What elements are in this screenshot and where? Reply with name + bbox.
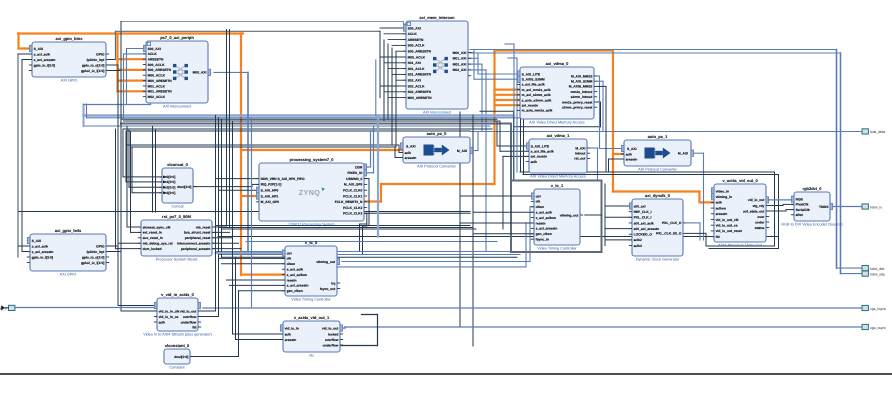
svg-text:S00_ACLK: S00_ACLK bbox=[148, 63, 165, 67]
wire blue B M00 drop bbox=[247, 72, 249, 254]
svg-text:overflow: overflow bbox=[183, 315, 197, 319]
svg-text:PXL_CLK_I: PXL_CLK_I bbox=[634, 216, 652, 220]
svg-text:ACLK: ACLK bbox=[408, 32, 418, 36]
wire blue F out drop bbox=[477, 132, 479, 151]
wire dark riser x221 bbox=[221, 119, 223, 257]
svg-text:vid_io_out: vid_io_out bbox=[748, 198, 765, 202]
wire blue P drop1 bbox=[699, 223, 701, 240]
wire blue drop x840 bbox=[840, 53, 842, 274]
svg-text:M01_AXI: M01_AXI bbox=[453, 57, 467, 61]
svg-text:AXI Interconnect: AXI Interconnect bbox=[163, 105, 192, 109]
svg-text:introut: introut bbox=[575, 152, 586, 156]
wire dark E feed1 bbox=[496, 121, 498, 146]
wire zynq DDR out bbox=[364, 166, 371, 168]
wire dark const riser bbox=[238, 291, 240, 357]
wire dark P out2 bbox=[687, 232, 707, 234]
wire dark O feed1 bbox=[460, 195, 534, 197]
svg-text:DDR: DDR bbox=[355, 165, 363, 169]
svg-text:S01_AXI: S01_AXI bbox=[408, 61, 421, 65]
wire dark Cfeed v2 bbox=[383, 40, 385, 121]
svg-text:mm2s_introut: mm2s_introut bbox=[571, 90, 594, 94]
svg-text:s_axi_aclk: s_axi_aclk bbox=[287, 268, 304, 272]
svg-text:interconnect_aresetn: interconnect_aresetn bbox=[177, 242, 210, 246]
svg-text:M00_ARESETN: M00_ARESETN bbox=[408, 96, 433, 100]
wire dark vtc clk bbox=[219, 257, 286, 259]
svg-text:M_AXI_GP0: M_AXI_GP0 bbox=[344, 183, 363, 187]
wire blue loop B1 drop bbox=[126, 49, 128, 105]
svg-text:S_AXI: S_AXI bbox=[32, 239, 42, 243]
wire dark stub K2 clk bbox=[18, 245, 30, 247]
svg-text:vid_io_out_clk: vid_io_out_clk bbox=[716, 218, 739, 222]
wire dark L2 loop v bbox=[377, 315, 379, 346]
svg-text:AXI4-Stream to Video Out: AXI4-Stream to Video Out bbox=[718, 244, 763, 248]
wire zynq DDR riser bbox=[370, 132, 372, 168]
svg-text:processing_system7_0: processing_system7_0 bbox=[289, 157, 334, 162]
svg-text:m_axi_mm2s_aclk: m_axi_mm2s_aclk bbox=[522, 88, 551, 92]
svg-text:S00_ARESETN: S00_ARESETN bbox=[408, 50, 432, 54]
wire dark riser x232 bbox=[232, 121, 234, 229]
block rst_ps7_0_50M reset bbox=[138, 214, 215, 261]
svg-text:Constant: Constant bbox=[169, 366, 185, 370]
block v_vid_in_axi4s_0 bbox=[143, 292, 212, 336]
wire orange drop x381 bbox=[380, 184, 382, 202]
svg-text:gen_clken: gen_clken bbox=[536, 232, 552, 236]
wire dark D pin stub y102 bbox=[597, 101, 601, 103]
wire dark concat riser bbox=[251, 184, 253, 186]
wire orange branch into interconnect B bbox=[118, 58, 147, 60]
wire dark drop x460 bbox=[459, 112, 461, 327]
svg-text:s_axi_aclk: s_axi_aclk bbox=[34, 52, 51, 56]
svg-text:m_axi_s2mm_aclk: m_axi_s2mm_aclk bbox=[522, 93, 551, 97]
wire dark riser x152 bbox=[152, 126, 154, 212]
wire dark riser x215 bbox=[215, 116, 217, 252]
svg-text:over: over bbox=[757, 215, 765, 219]
svg-text:S00_AXI: S00_AXI bbox=[148, 47, 161, 51]
svg-text:LOCKED_O: LOCKED_O bbox=[634, 233, 653, 237]
svg-text:v_tc_1: v_tc_1 bbox=[551, 183, 564, 188]
wire dark into M vid_io bbox=[121, 310, 157, 312]
svg-text:PixelClk: PixelClk bbox=[796, 203, 809, 207]
svg-text:s_axi_aclken: s_axi_aclken bbox=[536, 216, 556, 220]
wire orange branch into axi_vdma_0 bbox=[495, 99, 521, 101]
wire blue vtc out1 bbox=[342, 261, 530, 263]
svg-text:RGB: RGB bbox=[796, 198, 804, 202]
wire dark O feed3 bbox=[460, 222, 534, 224]
svg-text:gpio_io_i[3:0]: gpio_io_i[3:0] bbox=[32, 255, 53, 259]
svg-text:auto_pc_1: auto_pc_1 bbox=[648, 134, 669, 139]
wire dark into F aclk bbox=[398, 145, 400, 153]
wire blue loop B1 bbox=[127, 48, 147, 50]
wire dark D loop top bbox=[480, 110, 514, 112]
wire dark D bottom drop1 bbox=[520, 119, 522, 172]
svg-text:axi_resetn: axi_resetn bbox=[531, 155, 547, 159]
wire dark E feed2 bbox=[499, 121, 501, 151]
svg-text:S02_AXI: S02_AXI bbox=[408, 79, 421, 83]
wire dark M riser2 bbox=[218, 255, 220, 317]
wire dark riser x229 bbox=[229, 30, 231, 228]
svg-text:ext_reset_in: ext_reset_in bbox=[143, 231, 162, 235]
wire dark O feed2 bbox=[473, 211, 534, 213]
svg-text:Video In to AXI4-Stream (plus: Video In to AXI4-Stream (plus generator) bbox=[143, 333, 212, 337]
port vid in left bbox=[0, 305, 15, 310]
wire blue vtc drop1 bbox=[529, 207, 531, 262]
wire grey rect left bbox=[510, 124, 512, 253]
svg-text:aRst: aRst bbox=[796, 213, 804, 217]
svg-text:status: status bbox=[755, 226, 765, 230]
wire orange y191 bbox=[613, 190, 700, 192]
wire dark G aresetn v bbox=[608, 159, 610, 172]
svg-text:axi_gpio_btns: axi_gpio_btns bbox=[56, 36, 84, 41]
svg-text:slowest_sync_clk: slowest_sync_clk bbox=[143, 225, 171, 229]
wire dark zynq left1 bbox=[216, 178, 260, 180]
svg-text:hdmi_ddc: hdmi_ddc bbox=[870, 267, 885, 271]
wire zynq right out3 bbox=[364, 178, 369, 180]
wire dark E feed3b bbox=[503, 155, 529, 157]
wire dark Cfeed stub bbox=[384, 62, 406, 64]
svg-text:ARESETN: ARESETN bbox=[408, 38, 424, 42]
wire blue left port wire bbox=[15, 307, 155, 309]
wire orange branch into interconnect B bbox=[118, 69, 147, 71]
wire blue bus y117 bbox=[87, 117, 521, 119]
svg-text:hdmi_tx: hdmi_tx bbox=[870, 205, 882, 209]
wire grey top drop bbox=[403, 22, 405, 25]
svg-text:ctrl: ctrl bbox=[536, 194, 541, 198]
wire lightblue bus y115 bbox=[84, 114, 514, 116]
svg-text:mb_reset: mb_reset bbox=[196, 225, 212, 229]
wire dark bus y119 bbox=[121, 118, 497, 120]
svg-text:s_axis_s2mm_aclk: s_axis_s2mm_aclk bbox=[522, 98, 552, 102]
wire blue L2 out bbox=[343, 327, 345, 329]
svg-text:s_axi_aresetn: s_axi_aresetn bbox=[536, 227, 558, 231]
wire dark E feed2b bbox=[500, 150, 529, 152]
svg-text:M02_AXI: M02_AXI bbox=[453, 62, 467, 66]
svg-text:Processor System Reset: Processor System Reset bbox=[156, 258, 199, 262]
svg-text:axi_dynclk_0: axi_dynclk_0 bbox=[645, 193, 671, 198]
wire dark D loop right bbox=[600, 102, 602, 127]
block rgb2dvi_0 bbox=[781, 186, 843, 226]
wire grey top into C bbox=[404, 23, 407, 25]
wire zynq fclk out bbox=[364, 212, 367, 214]
svg-text:vid_io_out_ce: vid_io_out_ce bbox=[716, 224, 738, 228]
wire dark concat feed2 bbox=[126, 181, 162, 183]
wire dark vtc clken bbox=[222, 263, 286, 265]
wire blue D drop1 bbox=[599, 76, 601, 149]
wire blue drop x517 bbox=[516, 58, 518, 172]
wire dark D loop bottom bbox=[514, 126, 601, 128]
wire blue drop x251 bbox=[251, 118, 253, 308]
wire dark rst out2 bbox=[212, 231, 230, 233]
svg-text:peripheral_aresetn: peripheral_aresetn bbox=[181, 247, 211, 251]
wire dark const out bbox=[190, 356, 239, 358]
svg-text:gpio_io_o[3:0]: gpio_io_o[3:0] bbox=[82, 63, 105, 67]
wire dark bus y229 bbox=[222, 228, 477, 230]
port vid io 2 bbox=[862, 324, 886, 329]
wire dark M out2 bbox=[198, 316, 219, 318]
svg-text:M00_AXI: M00_AXI bbox=[193, 71, 207, 75]
wire blue C M01 stub bbox=[468, 57, 478, 59]
wire dark Q into R2 bbox=[783, 203, 794, 205]
wire blue into port4 bbox=[841, 273, 863, 275]
svg-text:ZYNQ: ZYNQ bbox=[299, 188, 321, 197]
svg-text:s_axi_aclk: s_axi_aclk bbox=[536, 211, 553, 215]
port ddc scl bbox=[862, 266, 885, 271]
wire dark rst feed h2 bbox=[116, 248, 142, 250]
wire dark concat riser f1 bbox=[122, 129, 124, 177]
svg-text:s2mm_introut: s2mm_introut bbox=[571, 95, 594, 99]
wire dark Cfeed v1 bbox=[379, 31, 381, 97]
wire dark Q into R3 bbox=[786, 209, 794, 211]
left port input arrow bbox=[1, 305, 5, 310]
wire dark drop x473 bbox=[472, 115, 474, 346]
svg-text:AXI GPIO: AXI GPIO bbox=[61, 79, 78, 83]
svg-text:xlconcat_0: xlconcat_0 bbox=[167, 162, 188, 167]
wire dark rst out1 bbox=[212, 226, 227, 228]
wire blue D out1 bbox=[597, 75, 600, 77]
svg-text:vid_io_out: vid_io_out bbox=[322, 326, 339, 330]
svg-text:S02_ACLK: S02_ACLK bbox=[408, 84, 425, 88]
block v_axi4s_vid_out_0 bbox=[711, 178, 769, 247]
svg-text:locked: locked bbox=[328, 332, 338, 336]
wire dark bus y131 left bbox=[126, 130, 470, 132]
wire dark rst feed2 v bbox=[130, 131, 132, 232]
svg-text:PXL_CLK_O: PXL_CLK_O bbox=[662, 221, 682, 225]
svg-text:vid_io_in_ce: vid_io_in_ce bbox=[159, 315, 179, 319]
block axi_gpio_leds bbox=[27, 228, 109, 276]
svg-text:Concat: Concat bbox=[171, 205, 184, 209]
wire blue y49 long bbox=[470, 49, 837, 51]
wire blue vtc into O bbox=[530, 206, 534, 208]
svg-text:aclk: aclk bbox=[626, 152, 633, 156]
svg-text:xlconstant_0: xlconstant_0 bbox=[165, 343, 190, 348]
svg-text:vtiming_out: vtiming_out bbox=[560, 213, 580, 217]
wire orange into v_axi4s_vid_out bbox=[700, 201, 715, 203]
svg-text:s_axi_aresetn: s_axi_aresetn bbox=[287, 284, 309, 288]
wire lblue riser x378 bbox=[377, 116, 379, 237]
block axi_protocol_converter_1 bbox=[621, 134, 694, 171]
wire dark bus y121 bbox=[124, 120, 500, 122]
wire dark riser x218 bbox=[218, 118, 220, 255]
block xlconcat_0 bbox=[159, 162, 196, 208]
svg-text:overflow: overflow bbox=[325, 338, 339, 342]
svg-text:M01_ACLK: M01_ACLK bbox=[148, 84, 166, 88]
wire dark E feed3 bbox=[502, 156, 504, 229]
wire orange top y50 bbox=[495, 49, 614, 51]
svg-text:aclk: aclk bbox=[716, 201, 723, 205]
svg-text:aux_reset_in: aux_reset_in bbox=[143, 236, 163, 240]
svg-text:underflow: underflow bbox=[323, 343, 339, 347]
wire dark into F aclk2 bbox=[399, 152, 403, 154]
wire dark concat riser f4 bbox=[131, 147, 133, 193]
wire dark riser x115 bbox=[115, 31, 117, 59]
svg-text:aclk: aclk bbox=[531, 160, 538, 164]
wire dark Cfeed stub bbox=[380, 56, 406, 58]
wire zynq hook v1 bbox=[359, 224, 361, 252]
wire orange branch into interconnect B bbox=[118, 90, 147, 92]
wire blue C M02 stub bbox=[468, 63, 482, 65]
wire blue vtc out2 bbox=[337, 266, 526, 268]
svg-text:GPIO: GPIO bbox=[96, 52, 105, 56]
wire dark left x22 bbox=[21, 60, 23, 252]
svg-text:vtiming_in: vtiming_in bbox=[716, 195, 733, 199]
svg-text:FCLK_CLK0: FCLK_CLK0 bbox=[343, 189, 362, 193]
svg-text:M_AXI_GP0: M_AXI_GP0 bbox=[261, 200, 280, 204]
wire dark bus y147 bbox=[131, 146, 395, 148]
svg-text:fsync_in: fsync_in bbox=[536, 238, 549, 242]
wire dark bus y236 long bbox=[218, 236, 779, 238]
wire dark Cfeed stub bbox=[380, 27, 406, 29]
svg-text:clk: clk bbox=[536, 200, 541, 204]
svg-text:s_axi_lite_aclk: s_axi_lite_aclk bbox=[522, 83, 545, 87]
svg-text:aresetn: aresetn bbox=[716, 212, 728, 216]
wire dark Q out3 bbox=[766, 210, 786, 212]
svg-text:v_axi4s_vid_out_0: v_axi4s_vid_out_0 bbox=[722, 178, 758, 183]
wire dark concat feed3 bbox=[129, 186, 162, 188]
svg-text:USBIND_0: USBIND_0 bbox=[346, 177, 362, 181]
svg-text:s_axi_aresetn: s_axi_aresetn bbox=[32, 250, 54, 254]
svg-text:IRQ_F2P[1:0]: IRQ_F2P[1:0] bbox=[261, 183, 282, 187]
port led right bbox=[862, 129, 886, 134]
wire blue into port3 bbox=[837, 267, 863, 269]
svg-text:s_axi_aclk: s_axi_aclk bbox=[32, 244, 49, 248]
wire dark long y211 bbox=[19, 211, 470, 213]
svg-text:v_tc_0: v_tc_0 bbox=[305, 240, 318, 245]
wire blue x517 top bbox=[508, 57, 517, 59]
wire dark K2 out2 bbox=[106, 251, 121, 253]
svg-text:rst_out: rst_out bbox=[574, 157, 586, 161]
svg-text:axi_vdma_1: axi_vdma_1 bbox=[547, 133, 570, 138]
wire dark L2 loop b bbox=[340, 345, 378, 347]
svg-text:vtc: vtc bbox=[309, 354, 314, 358]
wire blue riser x378b bbox=[375, 60, 377, 116]
port hdmi tx bbox=[862, 204, 882, 209]
wire dark Cfeed stub bbox=[392, 73, 406, 75]
block v_vid_in_axi4s_1 bbox=[280, 315, 343, 357]
svg-text:m_axis_mm2s_aclk: m_axis_mm2s_aclk bbox=[522, 109, 553, 113]
wire dark O out bbox=[585, 214, 602, 216]
svg-text:S01_ACLK: S01_ACLK bbox=[408, 67, 425, 71]
svg-text:M00_ARESETN: M00_ARESETN bbox=[148, 79, 173, 83]
svg-text:gpio_io_i[3:0]: gpio_io_i[3:0] bbox=[34, 63, 55, 67]
svg-text:FCLK_CLK2: FCLK_CLK2 bbox=[343, 206, 362, 210]
wire dark bus y227 bbox=[219, 227, 474, 229]
svg-text:v_vid_in_axi4s_0: v_vid_in_axi4s_0 bbox=[161, 292, 194, 297]
wire blue long y308 bbox=[203, 307, 862, 309]
wire dark Cfeed v3 bbox=[387, 44, 389, 119]
svg-text:gpio2_io_i[3:0]: gpio2_io_i[3:0] bbox=[81, 69, 104, 73]
wire blue long y131 to port1 bbox=[470, 131, 862, 133]
wire blue under B h bbox=[84, 104, 151, 106]
wire dark concat riser f2 bbox=[125, 131, 127, 182]
wire dark stub K2 rst bbox=[22, 251, 30, 253]
svg-text:AXI Protocol Converter: AXI Protocol Converter bbox=[417, 165, 457, 169]
svg-text:gen_clken: gen_clken bbox=[287, 289, 303, 293]
wire blue loop B2 bbox=[124, 53, 147, 55]
svg-text:FCLK_CLK3: FCLK_CLK3 bbox=[343, 212, 362, 216]
wire blue riser x478 bbox=[477, 53, 479, 58]
wire blue into D pin1 bbox=[478, 73, 520, 75]
svg-text:M_AXIS_MM2S: M_AXIS_MM2S bbox=[569, 85, 593, 89]
wire dark rst out4 bbox=[212, 242, 239, 244]
svg-text:s00_axi_aclk: s00_axi_aclk bbox=[634, 221, 654, 225]
svg-text:rgb2dvi_0: rgb2dvi_0 bbox=[803, 186, 823, 191]
wire dark rst feed v2 bbox=[115, 129, 117, 249]
wire blue long y327 bbox=[345, 326, 862, 328]
wire blue bus y241 bbox=[246, 241, 497, 243]
wire dark concat feed4 bbox=[132, 192, 162, 194]
wire dark A out1 bbox=[106, 59, 116, 61]
svg-text:AXI Interconnect: AXI Interconnect bbox=[423, 111, 452, 115]
svg-text:AXI Protocol Converter: AXI Protocol Converter bbox=[638, 168, 678, 172]
wire dark Cfeed stub bbox=[380, 85, 406, 87]
block axi_vdma_0 bbox=[517, 61, 597, 124]
wire zynq hook v2 bbox=[362, 226, 364, 255]
svg-text:s_axi_aclken: s_axi_aclken bbox=[287, 273, 307, 277]
svg-text:M_AXI_MM2S: M_AXI_MM2S bbox=[571, 74, 593, 78]
svg-text:axi_gpio_leds: axi_gpio_leds bbox=[55, 228, 82, 233]
svg-text:S00_ACLK: S00_ACLK bbox=[408, 44, 425, 48]
svg-text:vid_io_in_clk: vid_io_in_clk bbox=[159, 309, 180, 313]
svg-text:REF_CLK_I: REF_CLK_I bbox=[634, 210, 652, 214]
svg-text:S_AXI_HP1: S_AXI_HP1 bbox=[261, 194, 279, 198]
svg-text:mb_debug_sys_rst: mb_debug_sys_rst bbox=[143, 242, 174, 246]
wire blue F out bbox=[473, 150, 478, 152]
svg-text:M_AXI: M_AXI bbox=[457, 149, 467, 153]
svg-text:vid_io_out_reset: vid_io_out_reset bbox=[716, 229, 743, 233]
svg-text:DDR_VRN S_AXI_HP0_FIFO: DDR_VRN S_AXI_HP0_FIFO bbox=[261, 177, 305, 181]
svg-text:In3[0:0]: In3[0:0] bbox=[164, 191, 176, 195]
wire blue riser x474 bbox=[473, 50, 475, 53]
wire dark drop x118 bbox=[117, 65, 119, 306]
wire dark rst feed h1 bbox=[118, 242, 141, 244]
wire dark riser x226 bbox=[226, 30, 228, 226]
svg-text:S00_ARESETN: S00_ARESETN bbox=[148, 68, 172, 72]
wire blue E out drop bbox=[597, 148, 599, 181]
wire orange into ZYNQ right bbox=[364, 200, 381, 202]
svg-text:dout[0:0]: dout[0:0] bbox=[174, 355, 188, 359]
wire orange branch into interconnect B bbox=[118, 79, 147, 81]
svg-text:AXI Video Direct Memory Access: AXI Video Direct Memory Access bbox=[529, 121, 585, 125]
wire dark L2 loop right bbox=[362, 314, 378, 316]
wire dark rst feed2 h bbox=[131, 231, 142, 233]
wire orange into auto_pc_0 bbox=[241, 149, 403, 151]
wire blue P out1 bbox=[687, 222, 701, 224]
bottom border line bbox=[0, 373, 892, 375]
svg-text:s00_axi_aresetn: s00_axi_aresetn bbox=[634, 227, 659, 231]
block axi_dynclk_0 bbox=[629, 193, 686, 261]
svg-text:ZYNQ7 Processing System: ZYNQ7 Processing System bbox=[288, 223, 334, 227]
wire blue D into G bbox=[600, 148, 622, 150]
svg-text:aclk: aclk bbox=[405, 151, 412, 155]
wire dark L2 drop bbox=[232, 229, 234, 334]
svg-text:FCLK_CLK1: FCLK_CLK1 bbox=[343, 194, 362, 198]
wire dark bus y145 bbox=[128, 144, 399, 146]
wire dark Cfeed v5 bbox=[395, 52, 397, 147]
svg-text:aresetn: aresetn bbox=[285, 338, 297, 342]
svg-text:In1[0:0]: In1[0:0] bbox=[164, 180, 176, 184]
svg-text:mm2s_prmry_reset: mm2s_prmry_reset bbox=[562, 100, 593, 104]
svg-text:fid: fid bbox=[716, 235, 720, 239]
svg-text:S_AXIS_S2MM: S_AXIS_S2MM bbox=[522, 78, 545, 82]
wire dark Cfeed stub bbox=[388, 39, 406, 41]
wire dark L2 feed2 bbox=[236, 339, 284, 341]
wire dark D out3 bbox=[597, 85, 606, 87]
wire orange riser x494 bbox=[493, 51, 495, 185]
svg-text:ip2intc_irpt: ip2intc_irpt bbox=[87, 250, 106, 254]
wire dark const into vtc bbox=[239, 290, 286, 292]
svg-text:S_AXI_LITE: S_AXI_LITE bbox=[531, 144, 550, 148]
wire dark O feed4 bbox=[473, 233, 534, 235]
wire dark G feeds y172 bbox=[520, 171, 775, 173]
